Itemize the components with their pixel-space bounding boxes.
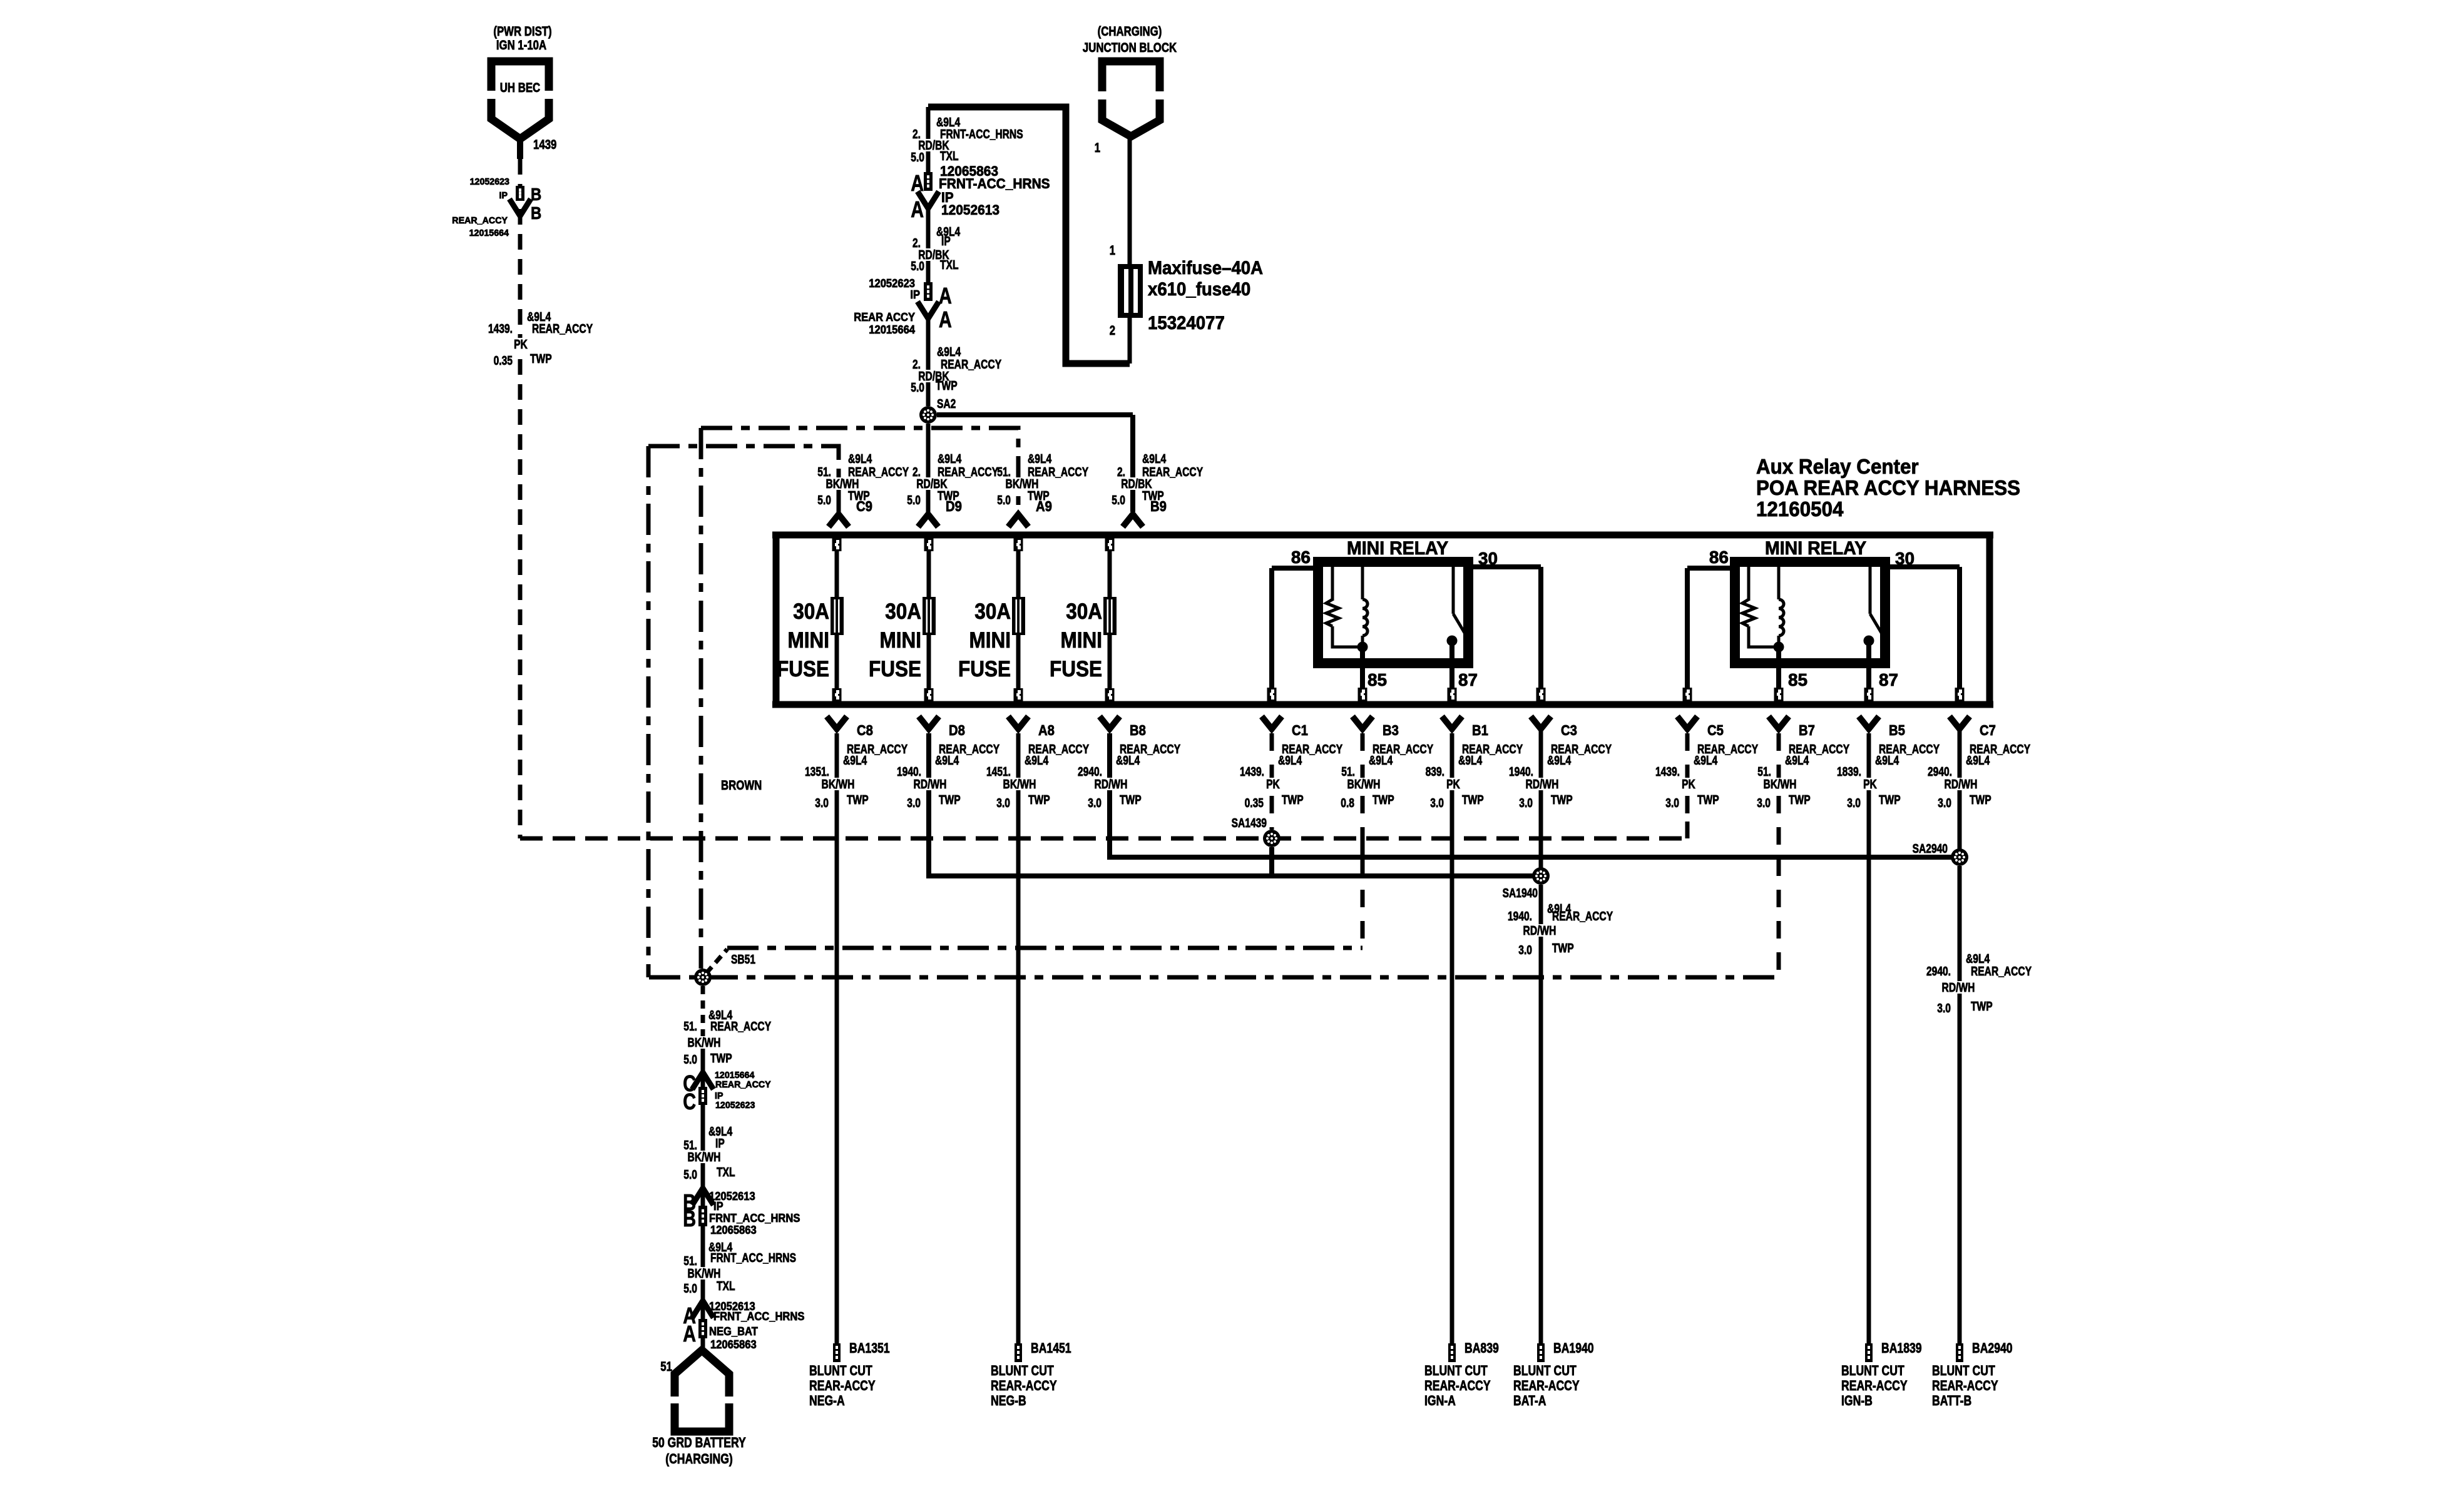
svg-text:BA1351: BA1351 [849,1340,890,1356]
svg-text:86: 86 [1709,547,1729,567]
svg-text:REAR-ACCY: REAR-ACCY [1841,1378,1908,1393]
svg-text:12052623: 12052623 [470,176,509,187]
svg-text:1940.: 1940. [1508,910,1532,924]
svg-text:BK/WH: BK/WH [1764,778,1797,791]
svg-text:&9L4: &9L4 [1116,754,1140,768]
svg-text:1940.: 1940. [897,765,921,779]
svg-text:1439.: 1439. [488,322,513,336]
svg-text:BLUNT CUT: BLUNT CUT [991,1363,1054,1378]
svg-text:Maxifuse–40A: Maxifuse–40A [1148,258,1263,278]
svg-text:A: A [911,170,924,196]
svg-text:TWP: TWP [847,793,869,807]
svg-text:&9L4: &9L4 [1966,754,1990,768]
svg-text:12015664: 12015664 [869,323,915,336]
svg-text:TWP: TWP [939,793,961,807]
svg-text:2940.: 2940. [1078,765,1102,779]
svg-text:FRNT-ACC_HRNS: FRNT-ACC_HRNS [939,176,1050,191]
svg-text:REAR_ACCY: REAR_ACCY [941,358,1002,372]
svg-text:RD/WH: RD/WH [1095,778,1128,791]
svg-text:REAR_ACCY: REAR_ACCY [710,1020,772,1034]
svg-text:TXL: TXL [940,150,959,163]
svg-text:Aux Relay Center: Aux Relay Center [1756,455,1919,478]
svg-text:FRNT_ACC_HRNS: FRNT_ACC_HRNS [713,1310,804,1323]
svg-text:BA839: BA839 [1465,1340,1499,1356]
svg-text:3.0: 3.0 [1757,796,1771,810]
svg-text:&9L4: &9L4 [1547,754,1572,768]
svg-text:12160504: 12160504 [1756,497,1844,521]
svg-text:REAR_ACCY: REAR_ACCY [715,1079,771,1090]
svg-text:3.0: 3.0 [1938,796,1951,810]
svg-text:IP: IP [499,190,508,201]
svg-text:REAR-ACCY: REAR-ACCY [1932,1378,1998,1393]
svg-text:PK: PK [1682,778,1695,791]
svg-text:BLUNT CUT: BLUNT CUT [809,1363,872,1378]
svg-text:RD/WH: RD/WH [1945,778,1978,791]
svg-text:IGN-A: IGN-A [1424,1393,1456,1408]
svg-text:BK/WH: BK/WH [688,1036,721,1050]
svg-text:&9L4: &9L4 [1142,452,1167,466]
svg-text:5.0: 5.0 [907,494,921,507]
svg-text:3.0: 3.0 [1519,796,1533,810]
svg-text:A: A [911,196,924,222]
svg-text:2: 2 [1110,323,1115,338]
svg-text:51: 51 [660,1360,672,1374]
svg-text:TXL: TXL [717,1166,735,1179]
svg-text:&9L4: &9L4 [938,452,962,466]
svg-text:SA1439: SA1439 [1232,817,1267,830]
svg-text:TXL: TXL [940,258,959,272]
svg-text:RD/WH: RD/WH [914,778,947,791]
svg-text:TWP: TWP [1373,793,1394,807]
svg-text:&9L4: &9L4 [1966,952,1990,966]
svg-text:FRNT_ACC_HRNS: FRNT_ACC_HRNS [709,1212,800,1224]
svg-text:x610_fuse40: x610_fuse40 [1148,279,1250,300]
svg-text:TWP: TWP [1551,793,1573,807]
svg-text:MINI: MINI [1061,628,1103,653]
svg-text:TWP: TWP [1552,942,1574,955]
svg-text:IP: IP [715,1137,725,1151]
svg-text:RD/WH: RD/WH [1523,924,1557,938]
svg-text:IP: IP [910,288,920,301]
svg-text:JUNCTION BLOCK: JUNCTION BLOCK [1083,41,1177,55]
svg-text:MINI RELAY: MINI RELAY [1347,538,1448,559]
svg-text:REAR_ACCY: REAR_ACCY [1971,965,2032,979]
svg-text:3.0: 3.0 [907,796,921,810]
svg-text:BLUNT CUT: BLUNT CUT [1841,1363,1904,1378]
svg-text:REAR-ACCY: REAR-ACCY [1513,1378,1580,1393]
svg-text:30A: 30A [793,599,829,624]
svg-text:85: 85 [1367,670,1387,689]
svg-text:5.0: 5.0 [911,260,924,273]
svg-text:TWP: TWP [1120,793,1142,807]
svg-text:85: 85 [1788,670,1807,689]
svg-text:C9: C9 [856,498,872,514]
svg-text:NEG-B: NEG-B [991,1393,1026,1408]
svg-text:TXL: TXL [717,1280,735,1293]
svg-text:87: 87 [1458,670,1478,689]
svg-text:FRNT_ACC_HRNS: FRNT_ACC_HRNS [710,1251,796,1265]
svg-text:FUSE: FUSE [777,657,829,681]
svg-text:5.0: 5.0 [817,494,831,507]
svg-text:BAT-A: BAT-A [1513,1393,1546,1408]
svg-text:3.0: 3.0 [815,796,829,810]
svg-text:&9L4: &9L4 [1028,452,1052,466]
svg-text:NEG-A: NEG-A [809,1393,845,1408]
svg-text:B5: B5 [1889,722,1905,738]
svg-text:TWP: TWP [710,1052,732,1066]
svg-text:RD/WH: RD/WH [1942,981,1975,995]
svg-text:86: 86 [1291,547,1311,567]
svg-text:C: C [683,1089,696,1114]
svg-text:POA REAR ACCY HARNESS: POA REAR ACCY HARNESS [1756,476,2020,499]
svg-text:&9L4: &9L4 [1785,754,1809,768]
svg-text:12015664: 12015664 [469,228,509,238]
svg-text:MINI: MINI [880,628,922,653]
svg-text:BA2940: BA2940 [1972,1340,2013,1356]
svg-text:&9L4: &9L4 [1369,754,1393,768]
svg-text:NEG_BAT: NEG_BAT [709,1325,758,1338]
svg-text:1: 1 [1110,243,1116,258]
svg-text:TWP: TWP [936,379,958,393]
svg-text:B: B [531,203,541,223]
svg-text:REAR-ACCY: REAR-ACCY [1424,1378,1491,1393]
svg-text:C1: C1 [1292,722,1308,738]
svg-text:5.0: 5.0 [997,494,1011,507]
svg-text:&9L4: &9L4 [1025,754,1049,768]
svg-text:3.0: 3.0 [1665,796,1679,810]
svg-text:MINI: MINI [969,628,1011,653]
svg-text:IP: IP [713,1200,723,1213]
svg-text:BROWN: BROWN [721,778,762,793]
svg-text:BA1839: BA1839 [1881,1340,1922,1356]
svg-text:12065863: 12065863 [710,1338,757,1351]
svg-text:5.0: 5.0 [683,1282,697,1296]
svg-text:D8: D8 [949,722,965,738]
svg-text:15324077: 15324077 [1148,313,1225,333]
svg-text:TWP: TWP [1282,793,1304,807]
svg-text:SA2940: SA2940 [1913,842,1948,856]
svg-text:TWP: TWP [1789,793,1811,807]
svg-text:51.: 51. [1757,765,1771,779]
svg-text:&9L4: &9L4 [848,452,872,466]
svg-text:(CHARGING): (CHARGING) [1098,24,1162,39]
svg-text:C5: C5 [1707,722,1724,738]
svg-text:REAR ACCY: REAR ACCY [854,311,915,323]
svg-text:1451.: 1451. [986,765,1011,779]
svg-text:A9: A9 [1036,498,1052,514]
svg-text:0.8: 0.8 [1341,796,1354,810]
svg-text:2940.: 2940. [1928,765,1952,779]
svg-text:&9L4: &9L4 [1875,754,1899,768]
svg-text:(CHARGING): (CHARGING) [665,1451,733,1467]
svg-text:RD/WH: RD/WH [1526,778,1559,791]
svg-text:UH BEC: UH BEC [500,81,540,95]
svg-text:TWP: TWP [1879,793,1901,807]
svg-text:1: 1 [1095,141,1101,155]
svg-text:3.0: 3.0 [1430,796,1444,810]
svg-text:A: A [683,1321,696,1346]
svg-text:5.0: 5.0 [683,1168,697,1182]
svg-text:SB51: SB51 [731,953,755,967]
svg-text:3.0: 3.0 [1937,1002,1951,1015]
svg-text:30: 30 [1895,549,1914,568]
svg-text:BLUNT CUT: BLUNT CUT [1932,1363,1995,1378]
svg-text:B7: B7 [1799,722,1815,738]
svg-text:51.: 51. [683,1254,697,1268]
svg-text:3.0: 3.0 [996,796,1010,810]
svg-text:5.0: 5.0 [911,381,924,395]
svg-text:12052623: 12052623 [869,277,915,290]
svg-text:30A: 30A [1066,599,1102,624]
svg-text:87: 87 [1879,670,1898,689]
svg-text:50 GRD BATTERY: 50 GRD BATTERY [652,1435,746,1450]
svg-text:BK/WH: BK/WH [1003,778,1036,791]
svg-text:&9L4: &9L4 [935,754,959,768]
svg-text:REAR-ACCY: REAR-ACCY [991,1378,1057,1393]
svg-text:B3: B3 [1383,722,1399,738]
svg-text:REAR_ACCY: REAR_ACCY [1552,910,1613,924]
svg-text:TWP: TWP [1462,793,1484,807]
svg-text:PK: PK [1863,778,1877,791]
svg-text:A8: A8 [1038,722,1055,738]
svg-text:839.: 839. [1426,765,1444,779]
svg-text:0.35: 0.35 [494,354,513,368]
svg-text:30A: 30A [885,599,921,624]
svg-text:30: 30 [1478,549,1498,568]
svg-text:12052623: 12052623 [715,1100,755,1111]
svg-text:FRNT-ACC_HRNS: FRNT-ACC_HRNS [940,128,1023,141]
svg-text:FUSE: FUSE [958,657,1011,681]
svg-text:1439: 1439 [533,138,556,152]
svg-text:12065863: 12065863 [710,1224,757,1236]
svg-text:TWP: TWP [1697,793,1719,807]
svg-text:(PWR DIST): (PWR DIST) [493,24,551,39]
svg-text:B1: B1 [1472,722,1488,738]
svg-text:3.0: 3.0 [1847,796,1861,810]
svg-text:30A: 30A [974,599,1011,624]
svg-text:MINI: MINI [788,628,830,653]
svg-text:TWP: TWP [1028,793,1050,807]
svg-text:TWP: TWP [1970,793,1991,807]
svg-text:TWP: TWP [1971,1000,1993,1014]
svg-text:BK/WH: BK/WH [688,1151,721,1164]
svg-text:0.35: 0.35 [1245,796,1264,810]
svg-text:C7: C7 [1980,722,1996,738]
svg-text:12052613: 12052613 [941,202,999,218]
svg-text:51.: 51. [1341,765,1355,779]
svg-text:1940.: 1940. [1509,765,1533,779]
svg-text:FUSE: FUSE [869,657,921,681]
svg-text:51.: 51. [683,1020,697,1034]
svg-text:SA1940: SA1940 [1503,887,1538,900]
svg-text:BLUNT CUT: BLUNT CUT [1513,1363,1577,1378]
svg-text:BLUNT CUT: BLUNT CUT [1424,1363,1488,1378]
svg-text:5.0: 5.0 [1112,494,1125,507]
svg-text:BA1940: BA1940 [1553,1340,1594,1356]
svg-text:2940.: 2940. [1926,965,1951,979]
svg-text:A: A [939,283,952,308]
svg-text:&9L4: &9L4 [937,345,961,359]
svg-text:TWP: TWP [530,352,552,366]
svg-text:5.0: 5.0 [911,151,924,165]
svg-text:C3: C3 [1561,722,1577,738]
svg-text:C8: C8 [857,722,873,738]
svg-text:D9: D9 [946,498,962,514]
svg-text:B8: B8 [1130,722,1146,738]
svg-text:PK: PK [1446,778,1460,791]
svg-text:REAR-ACCY: REAR-ACCY [809,1378,876,1393]
svg-text:BA1451: BA1451 [1031,1340,1071,1356]
svg-text:1439.: 1439. [1655,765,1680,779]
svg-text:3.0: 3.0 [1518,944,1532,957]
svg-text:3.0: 3.0 [1088,796,1102,810]
svg-text:MINI RELAY: MINI RELAY [1765,538,1866,559]
svg-text:BK/WH: BK/WH [822,778,855,791]
svg-text:REAR_ACCY: REAR_ACCY [452,215,508,226]
svg-text:1351.: 1351. [805,765,829,779]
svg-text:BK/WH: BK/WH [688,1267,721,1281]
svg-text:A: A [939,307,952,332]
svg-text:&9L4: &9L4 [1278,754,1302,768]
svg-text:IGN-B: IGN-B [1841,1393,1873,1408]
svg-text:&9L4: &9L4 [1694,754,1718,768]
svg-text:REAR_ACCY: REAR_ACCY [532,322,593,336]
svg-text:PK: PK [514,338,528,352]
svg-text:5.0: 5.0 [683,1053,697,1067]
svg-text:BK/WH: BK/WH [1347,778,1381,791]
svg-text:IGN 1-10A: IGN 1-10A [496,38,546,53]
svg-text:1439.: 1439. [1240,765,1264,779]
svg-text:&9L4: &9L4 [1458,754,1483,768]
svg-text:B: B [683,1206,696,1231]
svg-text:SA2: SA2 [937,397,956,411]
svg-text:PK: PK [1266,778,1280,791]
svg-text:FUSE: FUSE [1050,657,1102,681]
svg-text:B: B [531,185,541,204]
svg-text:B9: B9 [1150,498,1167,514]
svg-text:BATT-B: BATT-B [1932,1393,1971,1408]
svg-text:1839.: 1839. [1837,765,1861,779]
svg-text:IP: IP [941,235,951,248]
svg-text:&9L4: &9L4 [843,754,867,768]
